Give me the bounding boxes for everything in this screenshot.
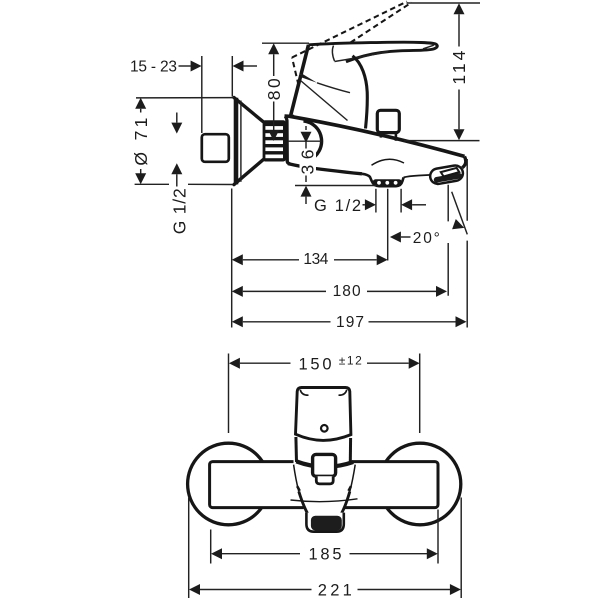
ext line pipe centerline — [288, 140, 322, 142]
dim 114 — [449, 3, 469, 140]
spout side left lower — [299, 492, 308, 514]
svg-text:185: 185 — [309, 545, 342, 563]
diverter knob — [377, 110, 399, 132]
spout top edge — [289, 116, 465, 156]
aerator dark face — [311, 516, 342, 531]
aerator white dots — [377, 181, 397, 185]
body bar — [210, 462, 438, 508]
ext line 150 left — [228, 354, 230, 434]
body bottom shoulder — [288, 164, 302, 167]
ext line aerator center vertical — [387, 189, 389, 261]
handle base wedge — [301, 73, 317, 83]
ext line wall bottom vertical — [231, 189, 233, 328]
wall escutcheon cone left face — [234, 98, 239, 185]
ext line 221 right — [460, 498, 462, 599]
handle left edge — [301, 45, 309, 75]
dim diameter 71 — [131, 98, 151, 185]
svg-text:150: 150 — [299, 355, 332, 373]
seam line short — [317, 83, 350, 93]
handle surface arc long — [335, 52, 389, 62]
body right edge curve — [353, 56, 368, 129]
spout side left upper — [294, 465, 299, 492]
dim thread G 1/2 vertical — [169, 113, 189, 235]
dim 20 degrees — [390, 219, 464, 247]
bar edge cover top — [294, 455, 353, 465]
dim 185 — [211, 545, 438, 563]
body top shoulder — [285, 114, 295, 118]
ext line raised lever top — [407, 2, 481, 4]
lever tip bevel — [423, 45, 434, 49]
ext line 185 right — [437, 510, 439, 564]
S-union thread pipe G1/2 — [202, 134, 229, 162]
handle lever outline — [309, 42, 438, 62]
cartridge cap circle — [304, 121, 322, 160]
ext line escutcheon bottom — [135, 183, 233, 185]
20 degree slant line — [452, 192, 468, 235]
dashed raised handle left edge — [292, 58, 299, 86]
svg-text:G 1/2: G 1/2 — [314, 197, 361, 215]
spout tick right — [349, 486, 352, 491]
svg-text:221: 221 — [318, 581, 352, 599]
svg-text:15 - 23: 15 - 23 — [130, 59, 177, 76]
escutcheon inner line — [240, 101, 242, 182]
ext line pipe top vertical — [201, 56, 203, 133]
ext line escutcheon top — [136, 97, 234, 99]
ext line 221 left — [188, 498, 190, 599]
svg-text:±12: ±12 — [339, 354, 362, 368]
spout dome arc — [372, 159, 405, 165]
dim G 1/2 horizontal — [314, 197, 426, 215]
lever front — [313, 454, 336, 476]
right escutcheon circle — [379, 443, 461, 525]
seam line long — [301, 81, 348, 121]
body column left edge — [291, 75, 302, 117]
valve to body neck — [286, 118, 296, 164]
diverter neck left — [380, 133, 383, 138]
dim 197 — [232, 314, 467, 331]
spout front face cover — [300, 464, 348, 513]
svg-text:20°: 20° — [413, 230, 440, 247]
spout side right lower — [342, 492, 350, 514]
spout bottom edge — [302, 167, 362, 174]
dim 15-23 — [130, 59, 257, 76]
dim 36 — [297, 126, 317, 204]
ext line aerator left vertical — [375, 189, 377, 213]
body left cap outline — [285, 116, 291, 164]
spout underside right — [404, 175, 431, 178]
spout right corner — [462, 156, 465, 167]
ext line aerator right vertical — [400, 189, 402, 213]
knob corner hook right — [339, 390, 347, 395]
spout side right upper — [350, 465, 355, 492]
dim 180 — [232, 283, 447, 300]
collar side left — [294, 437, 298, 462]
knob dot — [321, 425, 328, 432]
ext line outlet center vertical — [447, 185, 449, 296]
ext line spout tip vertical — [466, 159, 468, 328]
svg-text:180: 180 — [333, 283, 361, 300]
ext line spout corner — [404, 140, 480, 142]
escutcheon cone bottom edge — [234, 160, 263, 185]
spout face arc — [291, 499, 358, 502]
valve white ribs — [265, 126, 283, 158]
handle knob front — [296, 388, 351, 441]
lever step — [316, 476, 333, 484]
aerator black band — [373, 179, 402, 186]
ext line aerator bottom — [295, 185, 377, 187]
collar side right — [349, 438, 352, 462]
handshower outlet capsule — [429, 164, 464, 185]
dashed raised handle bottom edge — [351, 3, 412, 43]
knob corner hook left — [300, 390, 308, 395]
aerator outline front — [306, 513, 343, 532]
diverter neck right — [395, 133, 398, 141]
spout tick left — [297, 486, 300, 491]
check valve ribbed housing — [263, 120, 286, 161]
left escutcheon circle — [188, 443, 270, 525]
dim 150 +-12 — [229, 354, 420, 374]
ext line handle top — [262, 42, 309, 44]
aerator housing outline — [362, 174, 404, 186]
svg-text:114: 114 — [449, 50, 469, 84]
collar band arc — [296, 461, 353, 466]
svg-text:134: 134 — [303, 251, 328, 268]
ext line 150 right — [419, 354, 421, 434]
dim 221 — [189, 581, 461, 599]
dashed raised handle top edge — [292, 2, 407, 58]
handle surface arc small — [332, 46, 334, 62]
ext line 185 left — [210, 530, 212, 564]
ext line wall top vertical — [231, 56, 233, 97]
dim 134 — [232, 251, 388, 268]
dim 80 — [264, 43, 284, 141]
svg-text:G 1/2: G 1/2 — [169, 188, 189, 234]
escutcheon cone top edge — [234, 98, 263, 122]
svg-text:197: 197 — [336, 314, 364, 331]
